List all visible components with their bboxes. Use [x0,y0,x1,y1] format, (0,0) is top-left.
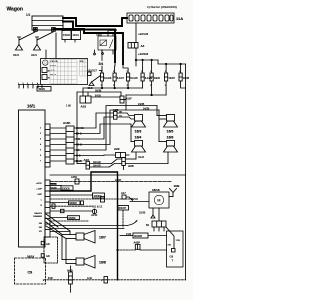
svg-text:2: 2 [113,71,114,73]
svg-text:P 0 I II III: P 0 I II III [51,61,58,63]
svg-text:16/6: 16/6 [167,136,174,140]
wire ground to ignition [45,50,47,59]
svg-text:11A: 11A [176,16,183,21]
svg-text:16/5: 16/5 [167,130,174,134]
svg-text:30: 30 [48,71,50,73]
svg-text:31/3: 31/3 [13,53,19,57]
lamp 5/1 [91,205,103,217]
rear harness wires [50,221,137,237]
svg-text:33/300: 33/300 [69,202,77,205]
antenna connector strip [146,208,166,231]
svg-text:A22: A22 [114,147,120,151]
svg-text:M: M [157,199,160,203]
wire y95 to speakers [126,64,186,280]
rear speaker 16/8 [62,235,106,269]
svg-text:+30/126: +30/126 [138,32,149,36]
wire labels right of A15F [76,128,84,163]
svg-text:A15F: A15F [91,213,98,217]
svg-text:16/18: 16/18 [152,188,160,192]
svg-text:1: 1 [165,71,166,73]
wires continue right of A15F [74,106,131,162]
connector A43 [67,266,73,293]
svg-text:A15F: A15F [63,121,71,125]
svg-text:DIMMER: DIMMER [33,216,42,218]
connector A15 lower [77,158,90,169]
wire 160 vertical [66,92,77,164]
label 33/306 [50,184,73,191]
svg-text:x x . . x: x x . . x [51,74,56,76]
svg-text:4: 4 [40,144,41,146]
svg-text:2: 2 [127,71,128,73]
svg-text:31/1O: 31/1O [131,198,138,201]
svg-text:2: 2 [165,85,166,87]
svg-text:5/1 & 12: 5/1 & 12 [93,205,103,209]
junction label 1104 [72,31,81,43]
svg-text:A15F: A15F [126,96,133,100]
wire pair to front speakers [110,103,167,142]
svg-text:53/294: 53/294 [109,28,117,32]
connector A26 [122,157,168,169]
svg-text:3: 3 [127,85,128,87]
ground 31/3 [13,37,23,57]
svg-text:Wagon: Wagon [7,7,23,13]
relay terminal circles [94,53,96,55]
svg-text:24/2B: 24/2B [138,103,145,106]
connector A22 lower [114,147,129,158]
connector 16/26 [150,60,161,95]
wire battery cable top [63,18,127,26]
svg-text:3: 3 [40,139,41,141]
antenna motor 16/18 [149,188,169,208]
connector A15F inline [120,96,132,103]
svg-text:+RCC: +RCC [36,183,42,185]
thick wire to rear [50,172,118,280]
svg-text:2: 2 [32,83,33,85]
speaker 16/6 [164,136,178,153]
svg-text:16/2B: 16/2B [183,77,190,80]
speaker 16/3 [132,115,146,134]
connector 16/2H [165,64,176,95]
radio signal labels [33,183,43,233]
speaker feed wires [131,119,168,164]
wire bus to ignition switch [55,33,57,59]
wire fuse feed down [135,23,137,43]
svg-text:30/29: 30/29 [39,88,46,91]
ignition pin row [18,83,51,91]
amplifier box 16/15 [166,227,183,267]
label A15F antenna [71,175,79,184]
svg-text:C9: C9 [28,271,33,275]
svg-text:16/9: 16/9 [174,184,180,188]
svg-text:3: 3 [23,83,24,85]
svg-text:33/3O6: 33/3O6 [62,187,71,190]
ground 31/4 [31,37,41,57]
svg-text:G-W: G-W [87,277,93,280]
wire 31/35 [139,208,155,218]
wire battery cable mid [63,22,115,63]
ground 31S [88,82,95,90]
svg-text:1: 1 [179,71,180,73]
svg-text:16/8: 16/8 [99,261,106,265]
svg-text:4: 4 [37,83,38,85]
connector 8-K2/6 [100,71,112,88]
label 33/300 [50,201,93,208]
battery 1/1 [26,13,63,31]
radio bottom stub [41,237,57,263]
radio wires to A15F [50,128,66,161]
connector on ignition edge [88,72,92,76]
svg-text:GN-GR: GN-GR [93,162,101,164]
svg-text:8-K2/8: 8-K2/8 [130,77,138,80]
svg-text:VO: VO [39,231,42,233]
connector 8-K2/8 [123,64,138,88]
svg-text:8-K2/6: 8-K2/6 [104,77,112,80]
svg-text:1/1: 1/1 [26,13,31,17]
wire row R [50,209,93,212]
wire +15 feed [100,70,103,72]
wire A4 down [135,48,137,66]
connector strip A15F [63,121,74,164]
svg-text:335: 335 [96,33,101,36]
svg-text:. x . x .: . x . x . [51,70,56,72]
label 33/307 [50,193,134,202]
wire y97 [91,94,120,97]
connector A22 upper [113,108,135,119]
ignition switch 3/1 [41,59,88,85]
svg-text:OG-B: OG-B [138,157,144,159]
svg-text:GN: GN [39,223,43,225]
svg-text:24/2B: 24/2B [143,107,150,110]
svg-text:6: 6 [40,155,41,157]
antenna 16/9 [169,184,180,196]
radio connector strip lower [45,180,50,237]
svg-text:7: 7 [40,161,41,163]
rear speaker 16/7 [62,231,106,244]
svg-text:+30/306: +30/306 [138,52,149,56]
antenna coax wire [50,179,171,182]
svg-text:8-K2/7: 8-K2/7 [117,77,125,80]
wires A15 to A26 [90,159,122,167]
svg-text:-15/P: -15/P [37,194,43,196]
svg-text:16/26: 16/26 [154,77,161,80]
radio connector strip upper [45,124,50,167]
svg-text:16/1: 16/1 [27,104,36,109]
dashed box C9 [15,258,46,284]
speaker 16/5 [164,115,178,134]
svg-text:31/35: 31/35 [139,212,146,215]
svg-text:24/2P: 24/2P [115,179,122,182]
svg-text:2/B: 2/B [168,245,172,247]
svg-text:30/3B: 30/3B [95,89,102,92]
svg-text:1) Not for (USA/CDN): 1) Not for (USA/CDN) [147,5,177,9]
wire relay to K2 row [101,66,103,73]
svg-text:16/3: 16/3 [135,130,142,134]
svg-text:+15/P: +15/P [36,189,42,191]
svg-text:15OO: 15OO [63,33,70,37]
connector A15 upper [80,96,91,109]
svg-text:1: 1 [150,71,151,73]
wire y92 [77,89,121,96]
relay 2/4 [98,30,116,61]
svg-text:1: 1 [40,128,41,130]
staircase feed wires [135,59,185,64]
fuse row 11A [127,13,183,23]
speaker 16/4 [132,136,146,153]
dashed harness line bottom [43,277,186,284]
svg-text:2: 2 [40,133,41,135]
connector A17 [121,191,133,201]
svg-text:GR: GR [39,227,43,229]
svg-text:31/4: 31/4 [31,53,37,57]
svg-text:X 15: X 15 [80,61,84,63]
svg-text:1: 1 [18,83,19,85]
radio pin numbers upper [40,128,41,163]
label 30/228 [120,233,167,238]
svg-text:GN-SB: GN-SB [51,184,58,186]
svg-text:GN-SB: GN-SB [51,187,58,189]
svg-text:GN-GR: GN-GR [93,165,101,167]
junction label 1500 [62,31,71,43]
svg-text:3: 3 [113,85,114,87]
svg-text:x . x . x: x . x . x [51,65,56,67]
svg-text:2/4: 2/4 [99,62,104,66]
svg-text:33/301: 33/301 [68,217,76,220]
svg-text:RADIO/: RADIO/ [34,212,42,215]
svg-text:2: 2 [150,85,151,87]
connector A4 [128,43,145,49]
svg-text:1 60: 1 60 [66,105,71,108]
svg-text:5: 5 [40,150,41,152]
svg-text:30/228: 30/228 [134,234,142,238]
svg-text:A15: A15 [81,105,87,109]
wire battery to ground right [37,32,53,40]
connector A43P [117,241,167,251]
label 33/327 [118,206,129,228]
svg-text:A17: A17 [121,191,126,195]
svg-text:16/7: 16/7 [99,236,106,240]
svg-text:5: 5 [27,83,28,85]
wires from lower strip [50,184,93,218]
svg-text:11O4: 11O4 [73,33,80,37]
connector 8-K2/7 [113,62,125,88]
svg-text:50: 50 [48,78,50,80]
wire battery to ground left [19,32,35,40]
connector 16/2B [179,64,190,88]
svg-text:16/2H: 16/2H [168,77,175,80]
svg-text:A26: A26 [128,164,134,168]
connector 8-K2/9 [141,60,153,88]
wire 31/10 [130,198,149,202]
svg-text:2: 2 [141,71,142,73]
svg-text:A4: A4 [141,44,145,48]
antenna control wire [50,174,186,176]
svg-text:16/4: 16/4 [135,136,142,140]
svg-text:B-W: B-W [48,277,53,280]
radio unit 16/1 [19,104,46,248]
label 33/301 [50,216,88,221]
svg-text:GN: GN [46,243,50,246]
svg-text:GN: GN [46,255,50,258]
wire to ground 31S [92,76,101,83]
diagonal fan to rear speakers [46,214,70,239]
svg-text:G9: G9 [170,255,174,259]
ignition internal terminals [19,68,50,85]
collector wire y88 [83,87,143,96]
wire battery cable low [55,29,123,64]
svg-text:B-DB: B-DB [95,94,101,97]
